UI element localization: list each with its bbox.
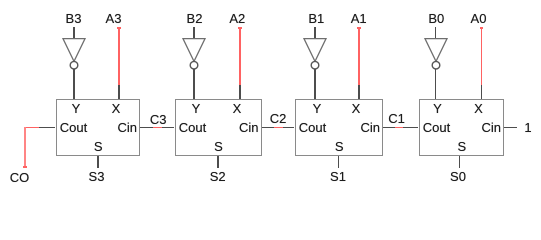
label A3 xyxy=(106,12,122,25)
wire A1 to X pin stub xyxy=(358,85,360,99)
wire A1 (red net) xyxy=(358,27,360,85)
wire inverter G3 output to Y pin of U3 xyxy=(314,69,316,99)
label constant 1 xyxy=(524,121,531,134)
label S2 xyxy=(210,170,226,183)
wire A0 (red net) xyxy=(481,27,483,85)
pin label Cout of U4 xyxy=(423,121,450,134)
pin label Y of U2 xyxy=(192,102,201,115)
pin label Cout of U2 xyxy=(179,121,206,134)
pin label X of U1 xyxy=(112,102,121,115)
wire B0 to inverter input xyxy=(435,27,437,39)
pin label S of U1 xyxy=(94,140,103,153)
label B3 xyxy=(66,12,82,25)
wire Cout C2 stub (gray) xyxy=(283,127,295,129)
pin label Cout of U1 xyxy=(60,121,87,134)
wire A1 end tick xyxy=(357,27,361,29)
wire A3 to X pin stub xyxy=(118,85,120,99)
inverter G2 (NOT gate on B2) xyxy=(181,37,207,71)
pin label Y of U4 xyxy=(433,102,442,115)
wire A2 (red net) xyxy=(239,27,241,85)
pin label X of U2 xyxy=(233,102,242,115)
wire B3 to inverter input xyxy=(73,27,75,39)
label S3 xyxy=(89,170,105,183)
wire S pin stub of U1 xyxy=(97,156,99,168)
label A2 xyxy=(229,12,245,25)
wire net C2 (red segment) xyxy=(274,127,283,129)
full adder U1 (bit 3) xyxy=(56,99,141,156)
pin label S of U3 xyxy=(335,140,344,153)
wire CO net vertical (red) xyxy=(24,127,26,168)
wire Cout C3 stub (gray) xyxy=(162,127,174,129)
wire inverter G2 output to Y pin of U2 xyxy=(193,69,195,99)
full adder U2 (bit 2) xyxy=(175,99,262,156)
pin label Cin of U2 xyxy=(239,121,259,134)
wire A0 to X pin stub xyxy=(481,85,483,99)
label B1 xyxy=(308,12,324,25)
wire B1 to inverter input xyxy=(314,27,316,39)
wire S pin stub of U2 xyxy=(217,156,219,168)
pin label Cin of U1 xyxy=(117,121,137,134)
wire CO net horizontal (red) xyxy=(24,127,39,129)
label C3 xyxy=(150,113,167,126)
wire inverter G4 output to Y pin of U4 xyxy=(435,69,437,99)
wire inverter G1 output to Y pin of U1 xyxy=(73,69,75,99)
pin label Y of U3 xyxy=(313,102,322,115)
wire A2 end tick xyxy=(238,27,242,29)
label C2 xyxy=(270,112,287,125)
wire Cout U1 stub (gray) xyxy=(39,127,55,129)
wire A0 end tick xyxy=(480,27,484,29)
wire S pin stub of U4 xyxy=(459,156,461,168)
full adder U4 (bit 0) xyxy=(419,99,505,156)
pin label X of U4 xyxy=(474,102,483,115)
pin label Cin of U3 xyxy=(360,121,380,134)
label A1 xyxy=(351,12,367,25)
pin label Cin of U4 xyxy=(481,121,501,134)
label C1 xyxy=(388,112,405,125)
wire A3 end tick xyxy=(117,27,121,29)
label B2 xyxy=(187,12,203,25)
pin label S of U4 xyxy=(457,140,466,153)
label S0 xyxy=(450,170,466,183)
pin label S of U2 xyxy=(214,140,223,153)
label B0 xyxy=(428,12,444,25)
full adder U3 (bit 1) xyxy=(295,99,384,156)
wire A3 (red net) xyxy=(118,27,120,85)
wire CO end tick xyxy=(23,166,27,168)
pin label X of U3 xyxy=(352,102,361,115)
wire A2 to X pin stub xyxy=(239,85,241,99)
inverter G3 (NOT gate on B1) xyxy=(302,37,328,71)
inverter G4 (NOT gate on B0) xyxy=(423,37,449,71)
wire Cout C1 stub (gray) xyxy=(403,127,418,129)
wire net C1 (red segment) xyxy=(395,127,404,129)
wire Cin C1 stub (gray) xyxy=(383,127,395,129)
wire net C3 (red segment) xyxy=(153,127,162,129)
label S1 xyxy=(330,170,346,183)
pin label Cout of U3 xyxy=(299,121,326,134)
label CO xyxy=(10,171,30,184)
wire Cin C3 stub (gray) xyxy=(140,127,153,129)
wire Cin C2 stub (gray) xyxy=(262,127,275,129)
pin label Y of U1 xyxy=(72,102,81,115)
wire Cin U4 stub to constant 1 xyxy=(504,127,517,129)
label A0 xyxy=(471,12,487,25)
inverter G1 (NOT gate on B3) xyxy=(61,37,87,71)
wire B2 to inverter input xyxy=(193,27,195,39)
wire S pin stub of U3 xyxy=(338,156,340,168)
